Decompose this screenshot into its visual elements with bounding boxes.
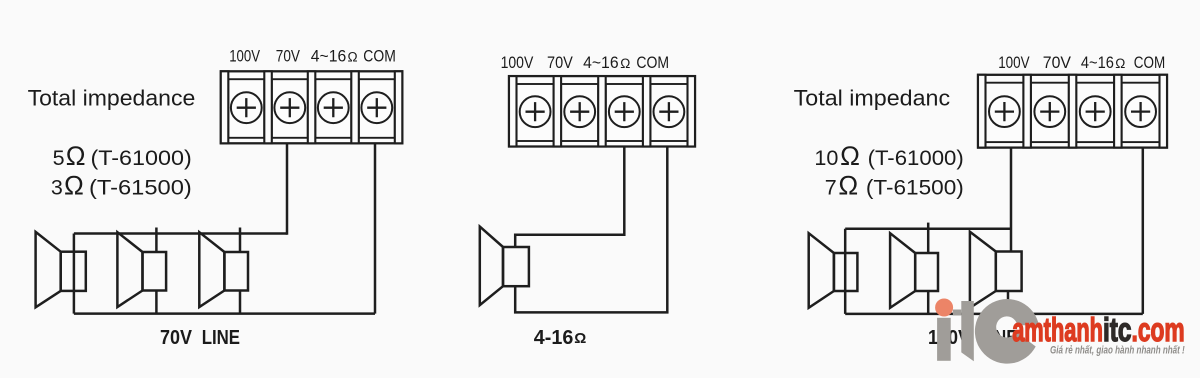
terminal block TB1 divider strip 4 bbox=[351, 71, 359, 143]
wire speaker SP1 feed-through vertical (left) bbox=[73, 234, 76, 314]
wire speaker SP5 feed-through vertical (right) bbox=[844, 229, 847, 314]
wire top bus (right diagram) bbox=[845, 227, 1011, 230]
svg-text:Giá rẻ nhất, giao hành nhanh n: Giá rẻ nhất, giao hành nhanh nhất ! bbox=[1050, 345, 1185, 357]
label: 7 ohm (T-61500) bbox=[825, 170, 964, 200]
svg-text:COM: COM bbox=[363, 47, 396, 66]
wire from 70V terminal down (left diagram) bbox=[286, 143, 289, 234]
terminal block TB1 cell 3 inner plate bbox=[315, 79, 351, 138]
wire from COM terminal down (right diagram) bbox=[1142, 148, 1145, 314]
wire from COM terminal to speaker bottom (middle) bbox=[515, 147, 667, 313]
terminal block TB1 cell 4 inner plate bbox=[359, 79, 395, 138]
terminal block TB3 divider strip 2 bbox=[1023, 75, 1031, 148]
speaker SP5 driver box bbox=[834, 253, 858, 291]
label: Total impedance (left) bbox=[28, 86, 196, 111]
terminal block TB1 cell 1 inner plate bbox=[228, 79, 264, 138]
terminal block TB1 divider strip 1 bbox=[221, 71, 229, 143]
svg-text:itc: itc bbox=[1103, 311, 1132, 348]
wire bottom bus (left diagram) bbox=[74, 312, 375, 315]
terminal block TB3 screw 2 bbox=[1034, 96, 1065, 127]
svg-text:.com: .com bbox=[1132, 311, 1185, 348]
svg-text:70V: 70V bbox=[276, 47, 301, 66]
terminal block TB1 divider strip 3 bbox=[308, 71, 316, 143]
terminal block TB3 divider strip 3 bbox=[1069, 75, 1077, 148]
label: 70V LINE bbox=[160, 327, 240, 349]
terminal block TB1 divider strip 5 bbox=[395, 71, 403, 143]
svg-text:(T-61000): (T-61000) bbox=[868, 146, 964, 170]
terminal block TB1 cell 2 inner plate bbox=[272, 79, 308, 138]
speaker SP1 driver box bbox=[61, 252, 86, 291]
label: 3 ohm (T-61500) bbox=[51, 170, 192, 200]
svg-text:(T-61000): (T-61000) bbox=[91, 146, 192, 170]
terminal block TB2 outer body bbox=[509, 76, 695, 146]
speaker SP7 horn bbox=[970, 232, 996, 308]
wire SP3 top stub (left) bbox=[239, 228, 242, 253]
svg-text:4~16: 4~16 bbox=[1081, 53, 1114, 72]
label: 100V LINE (partly hidden by watermark) bbox=[928, 327, 1018, 349]
speaker SP4 driver box bbox=[503, 247, 529, 286]
speaker SP2 horn bbox=[117, 232, 142, 307]
terminal block TB3 screw 1 bbox=[989, 96, 1020, 127]
svg-text:Ω: Ω bbox=[64, 170, 84, 200]
terminal block TB3 screw 3 bbox=[1080, 96, 1111, 127]
svg-text:amthanh: amthanh bbox=[1012, 311, 1103, 348]
terminal block TB2 divider strip 1 bbox=[509, 76, 517, 146]
svg-text:Ω: Ω bbox=[1115, 56, 1125, 71]
watermark tagline bbox=[1050, 345, 1185, 357]
label: Total impedanc (right) bbox=[794, 86, 950, 111]
wire from 4~16ohm terminal to speaker top (middle) bbox=[515, 147, 624, 248]
terminal block TB3 divider strip 1 bbox=[978, 75, 986, 148]
wire SP6 bottom stub (right) bbox=[927, 291, 930, 314]
label: middle terminal labels 100V 70V 4~16ohm COM bbox=[501, 53, 670, 72]
svg-text:4~16: 4~16 bbox=[311, 47, 347, 66]
svg-text:4~16: 4~16 bbox=[583, 53, 619, 72]
svg-text:Ω: Ω bbox=[66, 141, 86, 171]
speaker SP3 driver box bbox=[224, 252, 248, 291]
terminal block TB2 divider strip 5 bbox=[688, 76, 696, 146]
svg-text:Ω: Ω bbox=[840, 141, 860, 171]
svg-text:5: 5 bbox=[53, 146, 65, 170]
wire SP3 bottom stub (left) bbox=[239, 291, 242, 314]
speaker SP6 horn bbox=[890, 233, 915, 308]
wire from 100V terminal down to speaker SP7 (right) bbox=[1010, 148, 1013, 252]
wire SP2 top stub (left) bbox=[155, 228, 158, 253]
terminal block TB1 screw 1 bbox=[231, 92, 262, 123]
terminal block TB3 cell 3 inner plate bbox=[1076, 83, 1114, 142]
label: 4-16 ohm bbox=[534, 327, 586, 349]
svg-text:100V: 100V bbox=[998, 53, 1030, 72]
terminal block TB1 outer body bbox=[221, 71, 402, 143]
terminal block TB2 screw 1 bbox=[520, 96, 551, 127]
svg-text:70V: 70V bbox=[1043, 53, 1072, 72]
terminal block TB3 cell 1 inner plate bbox=[986, 83, 1024, 142]
wire SP6 top stub (right) bbox=[927, 223, 930, 253]
svg-text:70V: 70V bbox=[160, 327, 193, 349]
svg-text:Ω: Ω bbox=[838, 170, 858, 200]
terminal block TB1 divider strip 2 bbox=[264, 71, 272, 143]
svg-text:100V: 100V bbox=[501, 53, 534, 72]
terminal block TB2 screw 2 bbox=[564, 96, 595, 127]
svg-text:Total impedance: Total impedance bbox=[28, 86, 196, 111]
svg-text:4-16: 4-16 bbox=[534, 327, 574, 349]
terminal block TB2 cell 1 inner plate bbox=[517, 84, 554, 141]
svg-text:3: 3 bbox=[51, 175, 63, 199]
terminal block TB2 screw 3 bbox=[609, 96, 640, 127]
label: 5 ohm (T-61000) bbox=[53, 141, 192, 171]
terminal block TB1 screw 2 bbox=[274, 92, 305, 123]
svg-text:10: 10 bbox=[814, 146, 838, 170]
watermark logo: grey letter i stem bbox=[937, 318, 951, 361]
speaker SP5 horn bbox=[809, 233, 834, 308]
terminal block TB2 cell 3 inner plate bbox=[606, 84, 643, 141]
svg-text:COM: COM bbox=[636, 53, 669, 72]
terminal block TB3 cell 4 inner plate bbox=[1122, 83, 1160, 142]
svg-text:(T-61500): (T-61500) bbox=[89, 175, 192, 199]
svg-text:Ω: Ω bbox=[348, 50, 358, 65]
svg-text:Ω: Ω bbox=[620, 56, 630, 71]
svg-text:70V: 70V bbox=[547, 53, 573, 72]
label: 10 ohm (T-61000) bbox=[814, 141, 963, 171]
speaker SP3 horn bbox=[199, 232, 224, 307]
terminal block TB3 divider strip 5 bbox=[1160, 75, 1168, 148]
watermark logo: orange dot of letter i bbox=[935, 299, 953, 317]
terminal block TB1 screw 3 bbox=[318, 92, 349, 123]
terminal block TB3 screw 4 bbox=[1125, 96, 1156, 127]
terminal block TB2 divider strip 3 bbox=[598, 76, 606, 146]
wire from COM terminal down (left diagram) bbox=[374, 143, 377, 313]
wire bottom bus (right diagram) bbox=[845, 313, 1143, 316]
speaker SP1 horn bbox=[36, 232, 61, 307]
speaker SP6 driver box bbox=[915, 253, 938, 291]
svg-text:LINE: LINE bbox=[202, 327, 240, 349]
wire top bus (left diagram) bbox=[74, 232, 287, 235]
svg-text:Ω: Ω bbox=[574, 330, 586, 347]
terminal block TB3 outer body bbox=[978, 75, 1167, 148]
speaker SP2 driver box bbox=[143, 252, 167, 291]
watermark logo: grey letter c ring bbox=[975, 299, 1039, 364]
svg-text:Total impedanc: Total impedanc bbox=[794, 86, 950, 111]
label: right terminal labels 100V 70V 4~16ohm COM bbox=[998, 53, 1165, 72]
terminal block TB2 divider strip 4 bbox=[643, 76, 651, 146]
watermark logo: grey letter t bbox=[953, 301, 974, 361]
terminal block TB2 screw 4 bbox=[654, 96, 685, 127]
svg-text:COM: COM bbox=[1134, 53, 1165, 72]
terminal block TB3 divider strip 4 bbox=[1114, 75, 1122, 148]
terminal block TB1 screw 4 bbox=[361, 92, 392, 123]
terminal block TB2 divider strip 2 bbox=[554, 76, 562, 146]
watermark text: amthanh (red) bbox=[1012, 311, 1103, 348]
terminal block TB2 cell 4 inner plate bbox=[650, 84, 687, 141]
label: left terminal labels 100V 70V 4~16ohm COM bbox=[229, 47, 396, 66]
watermark text: .com (red) bbox=[1132, 311, 1185, 348]
wire SP2 bottom stub (left) bbox=[155, 291, 158, 314]
speaker SP7 driver box bbox=[996, 252, 1022, 292]
watermark text: itc (dark) bbox=[1103, 311, 1132, 348]
svg-text:(T-61500): (T-61500) bbox=[866, 175, 964, 199]
svg-text:7: 7 bbox=[825, 175, 837, 199]
svg-text:100V: 100V bbox=[229, 47, 260, 66]
terminal block TB2 cell 2 inner plate bbox=[561, 84, 598, 141]
speaker SP4 horn bbox=[480, 227, 503, 306]
terminal block TB3 cell 2 inner plate bbox=[1031, 83, 1069, 142]
wire SP7 bottom stub (right) bbox=[1007, 291, 1010, 314]
